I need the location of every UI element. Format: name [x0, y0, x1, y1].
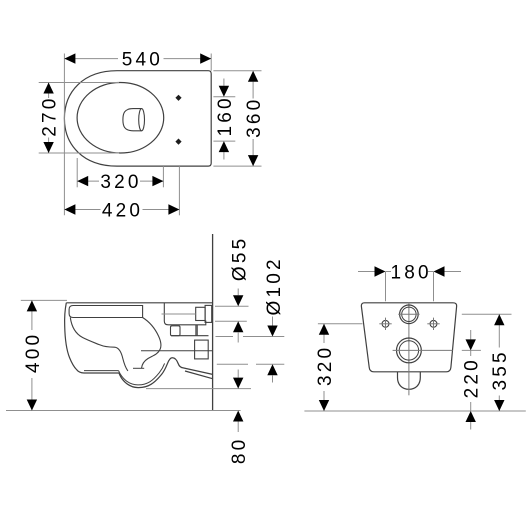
svg-text:160: 160	[215, 95, 236, 136]
svg-text:80: 80	[229, 437, 250, 465]
svg-text:420: 420	[102, 200, 143, 221]
svg-text:220: 220	[462, 357, 483, 398]
svg-text:355: 355	[490, 349, 511, 390]
svg-text:Ø102: Ø102	[264, 256, 285, 315]
svg-text:320: 320	[100, 172, 141, 193]
svg-text:Ø55: Ø55	[230, 236, 251, 282]
svg-text:180: 180	[390, 262, 431, 283]
svg-text:360: 360	[244, 97, 265, 138]
svg-text:540: 540	[122, 50, 163, 71]
svg-text:320: 320	[315, 345, 336, 386]
svg-text:270: 270	[40, 95, 61, 136]
svg-text:400: 400	[23, 332, 44, 373]
